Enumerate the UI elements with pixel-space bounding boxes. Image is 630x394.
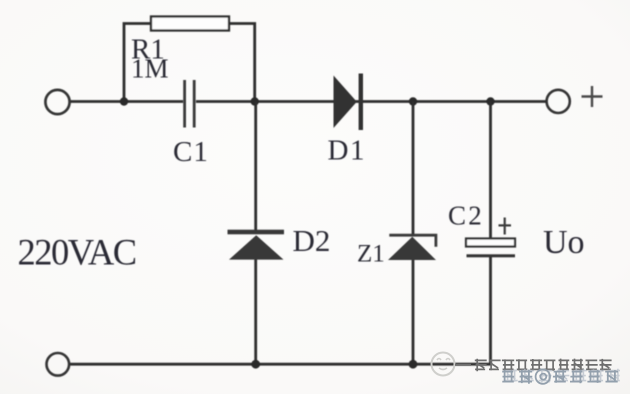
capacitor C2 (electrolytic)	[466, 239, 515, 258]
output terminal top-right	[547, 90, 570, 113]
wire: top rail from input to C1	[71, 100, 184, 103]
svg-text:C2: C2	[448, 201, 484, 231]
zener diode Z1	[388, 235, 436, 260]
capacitor C1	[183, 80, 195, 128]
watermark logo	[432, 353, 455, 376]
node: junction Z1/bottom rail	[409, 360, 418, 369]
watermark company text	[455, 359, 612, 372]
label C2 polarity +	[499, 218, 512, 235]
watermark second line ghost	[502, 369, 618, 383]
wire: top rail from C1 to output terminal	[196, 100, 547, 103]
diode D2	[228, 230, 285, 260]
input terminal top-left	[45, 90, 69, 114]
node: junction R1/C1/D2	[251, 97, 259, 105]
wire: Z1 branch upper	[412, 102, 415, 237]
input terminal bottom-left	[47, 353, 70, 376]
svg-text:Uo: Uo	[543, 224, 585, 261]
diode D1	[334, 74, 364, 131]
svg-text:D2: D2	[293, 223, 331, 258]
wire: C2 branch upper	[489, 102, 492, 239]
wire: Z1 branch lower	[412, 258, 415, 364]
wire: R1 loop right vertical	[229, 24, 255, 102]
svg-text:C1: C1	[173, 136, 209, 168]
svg-text:1M: 1M	[131, 54, 169, 84]
label + (output polarity)	[582, 86, 603, 107]
node: junction D1 output/C2	[486, 97, 494, 105]
wire: bottom rail	[70, 363, 492, 366]
node: junction D2/bottom rail	[251, 360, 260, 369]
svg-text:D1: D1	[328, 135, 366, 167]
watermark second line ghost copy	[505, 369, 620, 383]
wire: C2 branch lower	[489, 257, 492, 365]
resistor R1 body	[151, 17, 229, 31]
svg-text:Z1: Z1	[357, 241, 385, 268]
node: junction input/R1	[120, 97, 128, 105]
wire: D2 branch upper	[254, 102, 257, 232]
wire: R1 loop left vertical	[124, 24, 151, 102]
wire: D2 branch lower	[254, 258, 257, 364]
svg-text:220VAC: 220VAC	[18, 232, 136, 273]
node: junction D1/Z1	[409, 97, 417, 105]
